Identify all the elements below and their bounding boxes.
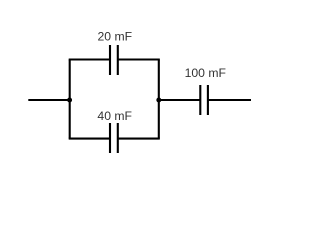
node B junction dot [156, 98, 161, 103]
svg-text:100 mF: 100 mF [185, 66, 226, 80]
wire top-left segment [69, 58, 110, 60]
wire bottom-right segment [118, 138, 160, 140]
wire right lead out [208, 99, 251, 101]
wire bottom-left segment [69, 138, 110, 140]
wire top-right segment [118, 58, 160, 60]
capacitor C3 100 mF plates [200, 85, 208, 115]
node A junction dot [67, 98, 72, 103]
capacitor C2 40 mF plates [110, 123, 118, 153]
wire left lead [28, 99, 69, 101]
svg-text:40 mF: 40 mF [97, 109, 132, 123]
wire right vertical branch [158, 60, 160, 139]
wire left vertical branch [69, 60, 71, 139]
svg-text:20 mF: 20 mF [98, 30, 133, 44]
wire right lead to C3 [159, 99, 201, 101]
capacitor C1 20 mF plates [110, 45, 118, 75]
